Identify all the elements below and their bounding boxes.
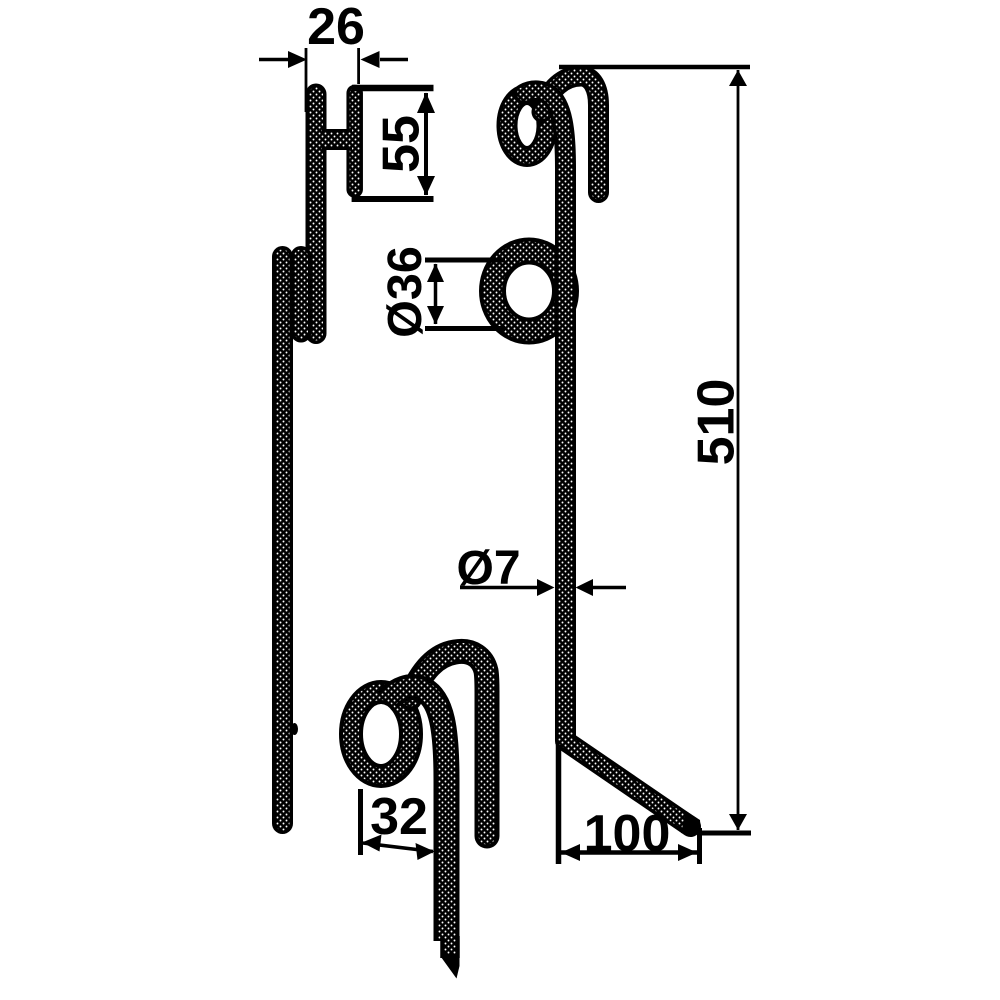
bottom view: pointed tip	[441, 936, 460, 979]
side view: coil strip B	[291, 257, 312, 333]
svg-text:55: 55	[373, 115, 431, 173]
dimension 26: left line + arrow	[259, 58, 289, 62]
dimension Ø7: left line + arrow	[460, 586, 538, 590]
dimension 32: dim line + arrows	[363, 843, 433, 852]
svg-text:510: 510	[688, 379, 746, 466]
dimension Ø36: dim line + arrows	[434, 264, 438, 324]
dimension 32: extension line	[358, 789, 363, 855]
dimension Ø7: right arrow + line	[576, 579, 594, 596]
dimension 100: dim line + arrows	[560, 850, 698, 855]
dimension 510: dim line + arrows	[737, 70, 740, 830]
dimension 55: extension lines	[352, 85, 434, 92]
dimension 510: extension lines	[559, 65, 750, 70]
bottom view: loop	[351, 692, 411, 776]
main view: coil ring	[493, 251, 566, 331]
main view: foot tip cut face	[681, 811, 701, 835]
dimension 26: right line + arrow	[380, 58, 408, 62]
svg-text:Ø36: Ø36	[378, 246, 432, 338]
side view: upper-left bar (strip C)	[306, 94, 327, 334]
side view: coil strip A + long lower leg	[272, 257, 293, 824]
bottom view: exit arch + right free leg	[410, 651, 487, 836]
main view: main leg + loop entry + foot	[524, 91, 691, 827]
svg-text:26: 26	[307, 0, 365, 56]
svg-text:32: 32	[370, 788, 428, 846]
dimension 26: extension lines	[305, 48, 308, 112]
main view: exit arc + free end	[542, 76, 599, 193]
dimension 100: extension lines	[556, 745, 562, 864]
side view: foot bend bump	[291, 723, 298, 735]
dimension 55: dim line + arrows	[424, 93, 428, 195]
svg-text:100: 100	[584, 805, 671, 863]
side view: short right bar	[346, 93, 363, 190]
dimension Ø36: extension lines	[425, 258, 505, 263]
bottom view: long leg + loop entry	[388, 687, 447, 941]
side view: crossbar (coil edge-on)	[322, 129, 352, 150]
main view: pigtail loop	[507, 95, 547, 157]
